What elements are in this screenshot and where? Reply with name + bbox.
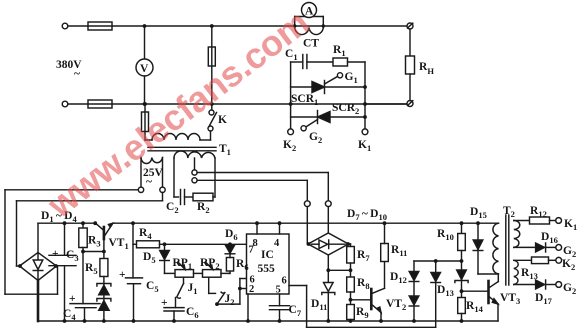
svg-text:R13: R13 xyxy=(521,267,538,281)
svg-text:VT3: VT3 xyxy=(500,292,520,306)
svg-text:RH: RH xyxy=(419,61,434,76)
svg-text:SCR1: SCR1 xyxy=(291,93,318,107)
svg-text:R1: R1 xyxy=(333,44,346,58)
svg-text:~: ~ xyxy=(146,176,152,188)
svg-text:+: + xyxy=(119,269,126,281)
svg-text:J1: J1 xyxy=(188,282,198,296)
svg-text:C4: C4 xyxy=(63,308,76,322)
svg-text:VT1: VT1 xyxy=(109,237,129,251)
svg-text:D11: D11 xyxy=(311,298,327,312)
svg-text:R12: R12 xyxy=(530,205,547,219)
svg-text:K2: K2 xyxy=(283,139,296,153)
svg-text:K1: K1 xyxy=(358,139,371,153)
svg-text:G2: G2 xyxy=(309,131,322,145)
svg-text:C6: C6 xyxy=(186,306,199,320)
svg-text:D7 ~ D10: D7 ~ D10 xyxy=(347,208,387,222)
svg-text:R10: R10 xyxy=(437,228,454,242)
svg-text:J2: J2 xyxy=(225,293,235,307)
svg-text:R14: R14 xyxy=(466,300,484,314)
svg-text:T1: T1 xyxy=(219,143,231,157)
svg-text:5: 5 xyxy=(276,285,281,296)
svg-text:4: 4 xyxy=(274,238,280,249)
svg-text:K2: K2 xyxy=(562,258,575,272)
svg-text:G2: G2 xyxy=(563,245,576,259)
svg-text:IC: IC xyxy=(261,249,274,261)
svg-text:K: K xyxy=(218,114,227,126)
svg-text:R11: R11 xyxy=(391,244,407,258)
svg-text:G1: G1 xyxy=(345,71,358,85)
svg-text:RP1: RP1 xyxy=(173,257,193,271)
svg-text:R4: R4 xyxy=(139,227,152,241)
svg-text:G2: G2 xyxy=(563,282,576,296)
svg-text:D16: D16 xyxy=(541,231,558,245)
svg-text:R9: R9 xyxy=(356,306,369,320)
svg-text:C7: C7 xyxy=(289,304,302,318)
svg-text:K1: K1 xyxy=(564,218,577,232)
svg-text:D13: D13 xyxy=(437,284,454,298)
svg-text:www.elecfans.com: www.elecfans.com xyxy=(39,2,316,226)
svg-text:C3: C3 xyxy=(66,249,79,263)
svg-text:A: A xyxy=(305,6,314,18)
svg-text:D6: D6 xyxy=(225,228,238,242)
svg-text:7: 7 xyxy=(249,245,254,256)
svg-text:C2: C2 xyxy=(166,201,179,215)
svg-text:+: + xyxy=(161,297,168,309)
svg-text:D17: D17 xyxy=(535,292,553,306)
svg-text:6: 6 xyxy=(282,276,287,287)
svg-text:555: 555 xyxy=(258,263,276,275)
svg-text:R5: R5 xyxy=(85,262,98,276)
svg-text:R8: R8 xyxy=(357,277,370,291)
svg-text:R2: R2 xyxy=(197,201,210,215)
svg-text:D12: D12 xyxy=(390,271,407,285)
svg-text:~: ~ xyxy=(74,68,80,80)
svg-text:VT2: VT2 xyxy=(386,298,406,312)
svg-text:D5: D5 xyxy=(143,251,156,265)
svg-text:V: V xyxy=(140,63,149,75)
svg-text:+: + xyxy=(69,293,76,305)
svg-text:RP2: RP2 xyxy=(200,257,220,271)
svg-text:+: + xyxy=(52,248,59,260)
svg-text:C5: C5 xyxy=(146,280,159,294)
svg-text:D15: D15 xyxy=(470,206,487,220)
svg-text:2: 2 xyxy=(249,284,254,295)
svg-text:R3: R3 xyxy=(88,235,101,249)
svg-text:R7: R7 xyxy=(357,249,370,263)
svg-text:T2: T2 xyxy=(503,205,515,219)
